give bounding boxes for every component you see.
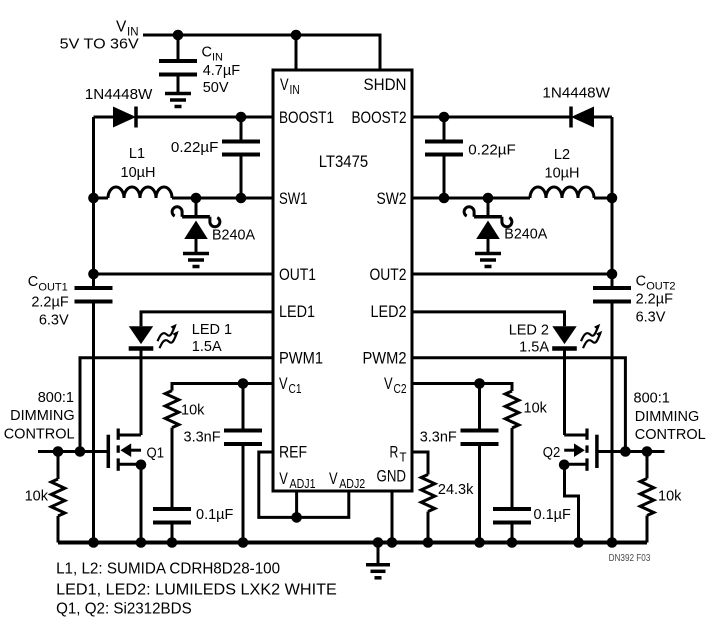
svg-text:10k: 10k	[658, 489, 682, 505]
svg-text:LED1, LED2: LUMILEDS LXK2 WHIT: LED1, LED2: LUMILEDS LXK2 WHITE	[56, 581, 337, 598]
svg-text:1N4448W: 1N4448W	[85, 87, 153, 103]
svg-text:DIMMING: DIMMING	[635, 409, 699, 425]
svg-text:ADJ1: ADJ1	[290, 476, 316, 491]
svg-text:0.22µF: 0.22µF	[171, 140, 219, 156]
svg-text:Q2: Q2	[543, 445, 561, 461]
svg-text:L2: L2	[554, 147, 570, 163]
svg-text:C: C	[202, 45, 212, 61]
svg-text:R: R	[390, 443, 399, 462]
svg-text:GND: GND	[377, 467, 407, 486]
svg-text:800:1: 800:1	[634, 391, 670, 407]
svg-text:V: V	[329, 469, 338, 488]
svg-text:OUT1: OUT1	[38, 281, 67, 293]
svg-text:10µH: 10µH	[121, 165, 156, 181]
svg-text:Q1, Q2: Si2312BDS: Q1, Q2: Si2312BDS	[56, 601, 192, 618]
svg-text:2.2µF: 2.2µF	[636, 292, 674, 308]
svg-text:LED2: LED2	[371, 302, 407, 321]
svg-text:ADJ2: ADJ2	[339, 476, 365, 491]
svg-text:24.3k: 24.3k	[438, 482, 474, 498]
svg-text:C1: C1	[289, 381, 302, 396]
svg-text:C2: C2	[394, 381, 407, 396]
svg-text:V: V	[279, 469, 288, 488]
svg-text:1.5A: 1.5A	[519, 340, 549, 356]
svg-text:BOOST1: BOOST1	[279, 108, 334, 127]
svg-text:3.3nF: 3.3nF	[420, 430, 457, 446]
svg-text:CONTROL: CONTROL	[4, 427, 75, 443]
svg-text:CONTROL: CONTROL	[635, 427, 706, 443]
svg-text:V: V	[279, 374, 288, 393]
svg-text:LED 1: LED 1	[192, 322, 232, 338]
svg-text:SW1: SW1	[279, 189, 308, 208]
svg-text:IN: IN	[290, 82, 300, 97]
svg-text:4.7µF: 4.7µF	[203, 63, 241, 79]
svg-text:L1: L1	[129, 146, 145, 162]
svg-text:2.2µF: 2.2µF	[31, 295, 69, 311]
svg-text:REF: REF	[279, 443, 307, 462]
svg-text:BOOST2: BOOST2	[352, 108, 407, 127]
svg-text:10k: 10k	[25, 489, 49, 505]
svg-text:B240A: B240A	[504, 227, 547, 243]
svg-text:SW2: SW2	[377, 189, 407, 208]
svg-text:PWM2: PWM2	[363, 349, 407, 368]
svg-text:0.1µF: 0.1µF	[196, 507, 234, 523]
svg-text:PWM1: PWM1	[279, 349, 323, 368]
svg-text:IN: IN	[212, 52, 223, 64]
svg-text:OUT2: OUT2	[370, 265, 407, 284]
svg-text:6.3V: 6.3V	[636, 310, 666, 326]
svg-text:LED 2: LED 2	[509, 323, 549, 339]
svg-text:V: V	[384, 374, 393, 393]
svg-text:V: V	[116, 19, 127, 36]
svg-text:1.5A: 1.5A	[192, 339, 222, 355]
svg-text:10k: 10k	[524, 401, 548, 417]
svg-text:6.3V: 6.3V	[39, 312, 69, 328]
svg-text:50V: 50V	[203, 80, 229, 96]
svg-text:10µH: 10µH	[545, 166, 580, 182]
svg-text:C: C	[636, 274, 646, 290]
svg-text:0.22µF: 0.22µF	[468, 143, 516, 159]
svg-text:10k: 10k	[181, 403, 205, 419]
svg-text:V: V	[280, 75, 289, 94]
svg-text:L1, L2: SUMIDA CDRH8D28-100: L1, L2: SUMIDA CDRH8D28-100	[56, 560, 280, 577]
svg-text:LT3475: LT3475	[319, 152, 369, 171]
svg-text:LED1: LED1	[279, 302, 315, 321]
svg-text:T: T	[400, 450, 407, 465]
svg-text:1N4448W: 1N4448W	[542, 86, 610, 102]
svg-text:DN392 F03: DN392 F03	[609, 553, 651, 564]
svg-text:5V TO 36V: 5V TO 36V	[60, 37, 139, 53]
svg-text:SHDN: SHDN	[364, 75, 407, 94]
svg-text:C: C	[28, 274, 38, 290]
svg-text:3.3nF: 3.3nF	[184, 430, 221, 446]
svg-text:OUT1: OUT1	[279, 265, 316, 284]
svg-text:800:1: 800:1	[38, 390, 74, 406]
svg-text:0.1µF: 0.1µF	[534, 507, 572, 523]
svg-text:B240A: B240A	[212, 228, 255, 244]
svg-text:Q1: Q1	[147, 446, 165, 462]
svg-text:DIMMING: DIMMING	[10, 408, 74, 424]
